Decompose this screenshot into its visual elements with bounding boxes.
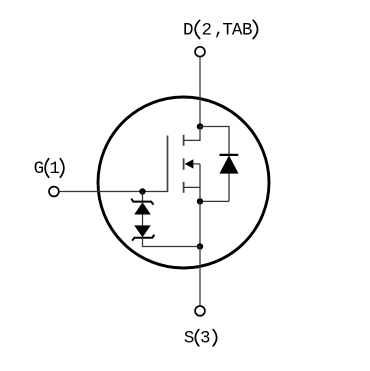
- MOSFET Q1 body arrow: [185, 159, 194, 168]
- svg-text:D: D: [183, 20, 194, 40]
- svg-text:1: 1: [49, 159, 60, 179]
- zener Z2 anode triangle: [134, 225, 151, 237]
- node: drain junction: [197, 123, 203, 129]
- wire: source junction to zener junction: [199, 201, 201, 246]
- svg-text:G: G: [34, 159, 45, 179]
- package circle: [98, 97, 269, 268]
- MOSFET Q1 gate bar: [167, 136, 169, 192]
- zener Z1 anode triangle: [134, 202, 151, 214]
- wire: drain to body-diode branch: [200, 127, 229, 202]
- diode D1 (body diode) anode triangle: [219, 155, 238, 173]
- wire: source connect: [183, 186, 200, 188]
- diode D1 (body diode) cathode bar: [220, 154, 239, 156]
- node: source junction: [197, 198, 203, 204]
- wire: gate junction to zener Z1: [142, 192, 144, 202]
- zener Z1 cathode bar: [131, 199, 153, 205]
- label S(3): [184, 329, 217, 349]
- wire: drain lead: [199, 57, 201, 127]
- wire: gate lead: [59, 191, 169, 193]
- MOSFET Q1 drain channel bar: [183, 135, 185, 146]
- terminal S(3): [195, 306, 205, 316]
- terminal D(2,TAB): [195, 47, 205, 57]
- svg-text:3: 3: [200, 329, 211, 349]
- svg-text:2: 2: [202, 20, 213, 40]
- wire: source vertical: [199, 164, 201, 202]
- label D(2,TAB): [183, 20, 258, 40]
- MOSFET Q1 source channel bar: [183, 182, 185, 193]
- wire: body-diode bottom to source junction: [200, 200, 229, 202]
- svg-text:B: B: [242, 20, 253, 40]
- node: gate junction: [139, 188, 145, 194]
- node: zener return junction: [197, 243, 203, 249]
- zener Z2 cathode bar: [132, 235, 154, 241]
- svg-text:S: S: [184, 329, 195, 349]
- wire: zener middle link: [142, 215, 144, 226]
- MOSFET Q1 body channel bar: [183, 158, 185, 170]
- wire: drain connect to MOSFET top bar: [183, 127, 200, 141]
- label G(1): [34, 159, 64, 180]
- terminal G(1): [49, 187, 59, 197]
- wire: source lead: [199, 247, 201, 307]
- wire: body connect: [193, 163, 200, 165]
- wire: zener bottom return: [143, 238, 201, 247]
